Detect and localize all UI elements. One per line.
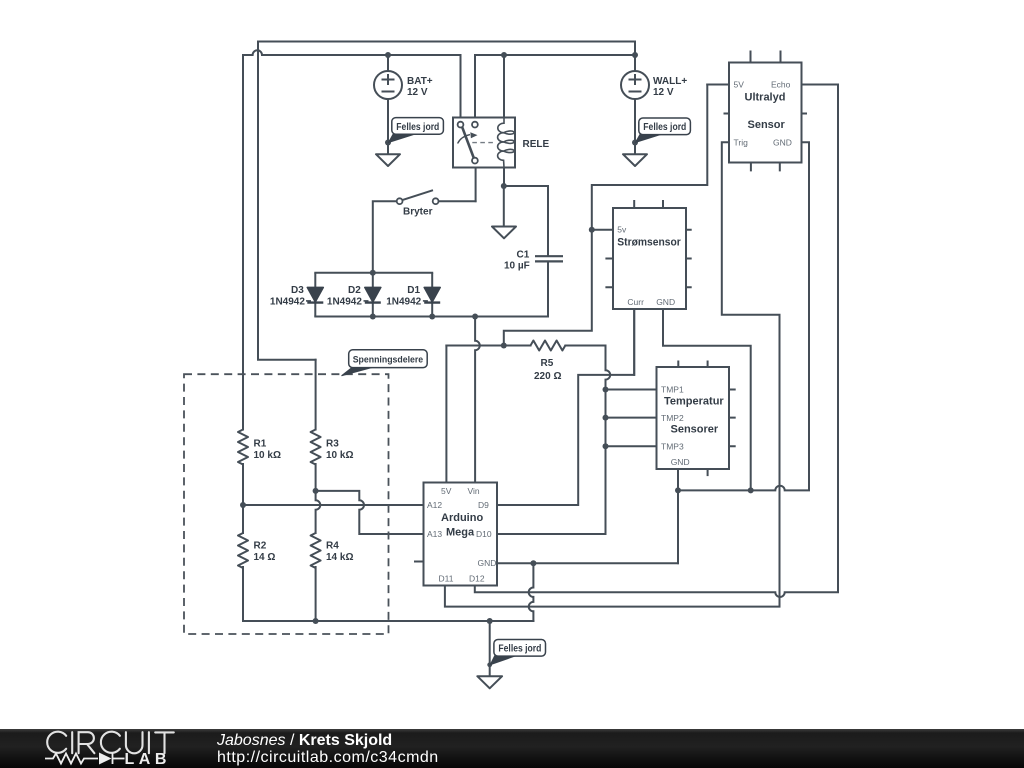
svg-text:Echo: Echo	[771, 80, 791, 90]
wire Temperatur GND drop	[677, 490, 679, 563]
svg-text:10 kΩ: 10 kΩ	[326, 450, 353, 461]
svg-text:220 Ω: 220 Ω	[534, 371, 561, 382]
node gnd label point	[487, 662, 492, 667]
node A12 tap	[240, 502, 246, 508]
wire TMP1 stub	[606, 389, 657, 391]
wire relay pin bottom to switch	[475, 164, 477, 202]
wire Echo net	[475, 85, 838, 597]
svg-text:5V: 5V	[734, 80, 745, 90]
svg-text:GND: GND	[656, 297, 675, 307]
node stromsensor gnd join	[748, 487, 754, 493]
svg-text:14 kΩ: 14 kΩ	[326, 552, 353, 563]
wire R5 left lead	[446, 345, 530, 347]
wire ground bottom stem	[489, 621, 491, 676]
voltage source V1 BAT+	[374, 71, 402, 99]
svg-text:Spenningsdelere: Spenningsdelere	[353, 355, 424, 366]
svg-text:D11: D11	[439, 574, 454, 584]
resistor R5 220	[531, 341, 566, 351]
svg-text:Felles jord: Felles jord	[498, 644, 541, 655]
svg-text:Jabosnes / Krets Skjold: Jabosnes / Krets Skjold	[216, 732, 392, 749]
diode D3 1N4942	[270, 273, 323, 317]
svg-text:5v: 5v	[617, 225, 627, 235]
node BAT+ gnd	[385, 140, 391, 146]
svg-text:Sensorer: Sensorer	[671, 424, 719, 436]
wire 5v riser: R5 tap up to Ultralyd 5V	[504, 85, 729, 346]
wire diode top rail	[315, 272, 432, 274]
svg-text:R3: R3	[326, 438, 339, 449]
svg-text:R2: R2	[254, 540, 267, 551]
svg-text:A13: A13	[427, 529, 442, 539]
svg-text:WALL+: WALL+	[653, 76, 687, 87]
ground (relay/C1)	[492, 227, 516, 239]
svg-text:D9: D9	[478, 500, 489, 510]
wire BAT+ stem bottom	[387, 99, 389, 154]
svg-text:D1: D1	[407, 285, 420, 296]
node BAT+ top	[385, 52, 391, 58]
voltage source V2 WALL+	[621, 71, 649, 99]
svg-text:BAT+: BAT+	[407, 76, 433, 87]
svg-text:12 V: 12 V	[653, 87, 674, 98]
wire relay coil drop	[503, 55, 505, 125]
wire Vin net: diode rail down to Arduino Vin	[475, 317, 480, 483]
flag Spenningsdelere	[342, 350, 428, 376]
wire R2 bottom to rail	[242, 567, 244, 621]
svg-text:1N4942: 1N4942	[386, 296, 421, 307]
node WALL+ top	[632, 52, 638, 58]
node temp gnd	[675, 487, 681, 493]
diode D2 1N4942	[327, 273, 381, 317]
wire junction to ground relay	[503, 186, 505, 227]
node D1 bottom	[429, 314, 435, 320]
wire junction to C1 top	[504, 186, 548, 255]
ground (BAT+)	[376, 154, 400, 166]
node Vin tap	[472, 314, 478, 320]
IC U3 Temperatur Sensorer	[657, 361, 736, 477]
resistor R3 10k	[311, 430, 321, 465]
wire TMP2 stub	[606, 417, 657, 419]
svg-text:TMP2: TMP2	[661, 413, 684, 423]
IC U1 Ultralyd Sensor	[724, 51, 808, 172]
node TMP1	[603, 387, 609, 393]
wire bryter right	[439, 200, 476, 202]
node TMP2	[603, 415, 609, 421]
flag Felles jord (WALL+)	[636, 118, 691, 143]
svg-text:R4: R4	[326, 540, 339, 551]
wire coil bottom to junction	[503, 161, 505, 186]
svg-text:Trig: Trig	[734, 137, 749, 147]
wire diode bottom rail left	[315, 316, 432, 318]
svg-text:Arduino: Arduino	[441, 512, 483, 524]
switch SW1 Bryter	[397, 190, 439, 204]
wire Stromsensor Curr drop	[633, 309, 635, 375]
node WALL+ gnd	[632, 140, 638, 146]
node coil tap	[501, 52, 507, 58]
wire Stromsensor GND path	[663, 309, 751, 490]
node A13 tap	[313, 488, 319, 494]
svg-text:Bryter: Bryter	[403, 207, 433, 218]
diode D1 1N4942	[386, 273, 440, 317]
svg-text:C1: C1	[517, 249, 530, 260]
capacitor C1 10uF	[535, 256, 563, 261]
wire relay pinB drop	[474, 55, 476, 122]
svg-text:D3: D3	[291, 285, 304, 296]
svg-text:Mega: Mega	[446, 527, 475, 539]
ground (WALL+)	[623, 154, 647, 166]
svg-text:Sensor: Sensor	[748, 119, 786, 131]
wire bryter left to diode rail	[373, 201, 397, 273]
wire Arduino GND to Temperatur GND	[497, 469, 678, 563]
svg-text:RELE: RELE	[523, 139, 550, 150]
svg-text:D10: D10	[476, 529, 492, 539]
svg-text:Vin: Vin	[468, 486, 480, 496]
node TMP3	[603, 443, 609, 449]
svg-text:GND: GND	[478, 558, 497, 568]
svg-text:http://circuitlab.com/c34cmdn: http://circuitlab.com/c34cmdn	[217, 749, 439, 766]
svg-text:5V: 5V	[441, 486, 452, 496]
node D2 bottom	[370, 314, 376, 320]
svg-text:Strømsensor: Strømsensor	[617, 237, 681, 249]
wire left vertical x258 to R3 jog	[258, 42, 316, 360]
wire stub stromsensor 5v	[592, 229, 613, 231]
svg-text:12 V: 12 V	[407, 87, 428, 98]
CircuitLab logo	[45, 732, 174, 768]
resistor R2 14	[238, 533, 248, 568]
svg-text:Curr: Curr	[627, 297, 644, 307]
resistor R4 14k	[311, 533, 321, 568]
wire second rail right y55	[475, 54, 635, 56]
svg-text:1N4942: 1N4942	[327, 296, 362, 307]
relay coil	[498, 118, 515, 168]
svg-text:R1: R1	[254, 438, 267, 449]
svg-text:D2: D2	[348, 285, 361, 296]
svg-text:14 Ω: 14 Ω	[254, 552, 276, 563]
wire top rail y41	[258, 41, 635, 43]
svg-text:TMP1: TMP1	[661, 385, 684, 395]
wire A13 jog	[316, 491, 424, 534]
wire left vertical x243 to R1	[242, 55, 244, 430]
wire R1 gap fill	[242, 464, 244, 533]
wire R3R4 vertical with hops	[316, 360, 321, 533]
svg-text:10 kΩ: 10 kΩ	[254, 450, 281, 461]
wire C1 bottom to rail	[432, 262, 548, 316]
IC U4 Arduino Mega	[414, 483, 497, 586]
wire WALL+ stem bottom	[634, 99, 636, 154]
svg-text:D12: D12	[469, 574, 485, 584]
wire 5V net: R5 left to Arduino 5V	[445, 346, 447, 483]
flag Felles jord (BAT+)	[389, 118, 444, 143]
svg-text:1N4942: 1N4942	[270, 296, 305, 307]
resistor R1 10k	[238, 430, 248, 465]
node R4 rail	[313, 618, 319, 624]
node stromsensor 5v	[589, 227, 595, 233]
flag Felles jord (bottom)	[490, 640, 545, 665]
svg-text:Felles jord: Felles jord	[643, 122, 686, 133]
wire R4 bottom to rail	[315, 567, 317, 621]
wire TMP3 stub	[606, 445, 657, 447]
wire R5 right down to TMP pins and D10	[497, 346, 610, 535]
wire bottom rail	[243, 620, 533, 622]
wire Trig net	[445, 142, 780, 606]
relay K1 RELE	[453, 118, 515, 168]
wire rail up to GND wire	[529, 563, 534, 621]
ground (bottom Felles jord)	[477, 676, 502, 688]
node gnd rail tap	[487, 618, 493, 624]
svg-text:A12: A12	[427, 500, 442, 510]
svg-text:GND: GND	[671, 457, 690, 467]
wire BAT+ stem top	[387, 55, 389, 71]
svg-text:LAB: LAB	[125, 751, 171, 768]
svg-text:TMP3: TMP3	[661, 442, 684, 452]
svg-text:Temperatur: Temperatur	[664, 396, 724, 408]
node R5 5v tap	[501, 343, 507, 349]
wire D9 to Curr	[497, 309, 634, 505]
wire A12: R1R2 tap to Arduino	[243, 504, 424, 506]
wire relay pinA drop	[460, 55, 462, 122]
svg-text:Felles jord: Felles jord	[396, 122, 439, 133]
wire GND horizontal upper	[678, 142, 809, 490]
node bryter diode rail	[370, 270, 376, 276]
wire second rail left y55	[243, 50, 461, 55]
node arduino gnd tap	[530, 560, 536, 566]
svg-text:GND: GND	[773, 137, 792, 147]
wire ultralyd 5V pin run	[707, 84, 729, 86]
IC U2 Stromsensor	[605, 200, 691, 309]
svg-text:Ultralyd: Ultralyd	[745, 92, 786, 104]
svg-text:R5: R5	[541, 358, 554, 369]
dashed box Spenningsdelere	[184, 374, 389, 634]
svg-text:10 µF: 10 µF	[504, 261, 530, 272]
wire WALL+ stem top	[634, 42, 636, 72]
node relay C1 junction	[501, 183, 507, 189]
wire R5 right lead	[565, 345, 605, 347]
